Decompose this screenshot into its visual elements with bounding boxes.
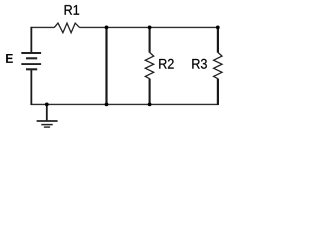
- node junction top middle: [105, 26, 109, 30]
- wire R2 bottom lead: [149, 79, 151, 105]
- ground stem: [46, 104, 48, 121]
- node junction bottom middle: [105, 103, 109, 107]
- node junction top R2: [148, 26, 152, 30]
- resistor R3: [214, 52, 222, 78]
- resistor R2: [145, 52, 153, 78]
- wire top horizontal right of R1: [80, 26, 218, 28]
- node junction bottom ground: [45, 103, 49, 107]
- wire R3 bottom lead: [217, 79, 219, 105]
- node junction bottom R2: [148, 103, 152, 107]
- node junction top right corner: [216, 26, 220, 30]
- resistor R1: [54, 23, 79, 33]
- wire R2 top lead: [149, 28, 151, 53]
- wire top horizontal left of R1: [30, 26, 54, 28]
- wire R3 top lead: [217, 27, 219, 53]
- wire battery top lead: [30, 27, 32, 53]
- wire battery bottom lead: [30, 69, 32, 105]
- ground bar narrow: [44, 126, 50, 128]
- battery E plate long lower: [21, 63, 41, 65]
- label R3: [192, 59, 207, 69]
- label R1: [65, 5, 79, 15]
- battery E plate short bottom: [26, 68, 37, 70]
- wire middle branch: [105, 28, 107, 105]
- battery E plate long top: [21, 52, 41, 54]
- label E: [6, 54, 13, 63]
- label R2: [159, 59, 173, 69]
- wire bottom horizontal: [30, 103, 218, 105]
- ground bar middle: [41, 124, 52, 126]
- battery E plate short upper: [26, 57, 37, 59]
- ground bar wide: [37, 120, 58, 122]
